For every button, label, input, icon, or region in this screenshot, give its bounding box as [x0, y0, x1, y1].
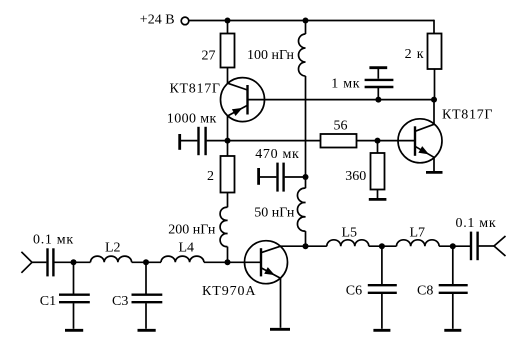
wire top rail right corner down to R 2k — [433, 20, 435, 34]
resistor 2k — [405, 34, 442, 100]
svg-text:2: 2 — [207, 169, 214, 184]
capacitor C6 — [346, 246, 397, 329]
svg-text:50 нГн: 50 нГн — [254, 205, 295, 220]
svg-text:1 мк: 1 мк — [331, 77, 360, 92]
node to C6 — [379, 243, 385, 249]
capacitor 1 uF with ground above — [331, 68, 393, 100]
node base rail to 2k / V2 collector — [431, 97, 437, 103]
wire middle column — [305, 76, 307, 188]
svg-text:0.1 мк: 0.1 мк — [33, 233, 74, 248]
transistor V1 KT817G — [170, 68, 265, 157]
input connector — [21, 252, 32, 273]
node collector bus — [303, 243, 309, 249]
svg-text:470 мк: 470 мк — [255, 147, 299, 162]
capacitor 470 uF with ground left — [255, 147, 305, 192]
resistor 56 — [321, 119, 416, 148]
resistor 2 — [207, 156, 235, 207]
capacitor C8 — [417, 246, 468, 329]
inductor L4 — [161, 240, 261, 262]
svg-text:100 нГн: 100 нГн — [247, 48, 295, 63]
capacitor 0.1 uF output — [456, 216, 497, 260]
ground under C6 — [373, 329, 390, 332]
capacitor C3 — [112, 262, 162, 329]
node to C3 — [143, 259, 149, 265]
node top rail to L(100nH) — [303, 18, 309, 24]
svg-text:+24 В: +24 В — [140, 13, 175, 28]
node 1000uF wire to R2 / V1 emitter — [225, 138, 231, 144]
svg-text:C1: C1 — [40, 294, 56, 309]
wire V1 base rail — [248, 99, 435, 101]
inductor 50 nH — [254, 188, 305, 246]
svg-text:КТ817Г: КТ817Г — [442, 107, 493, 122]
capacitor 1000 uF with ground left — [167, 112, 321, 156]
node top rail to R27 — [225, 18, 231, 24]
inductor L2 — [91, 240, 162, 262]
node 56 to 360 / V2 base — [375, 138, 381, 144]
resistor 27 — [202, 21, 235, 68]
ground under 360 — [369, 198, 387, 201]
wire top rail — [189, 20, 434, 22]
output connector — [494, 236, 506, 256]
power terminal +24 V — [140, 13, 189, 28]
svg-text:КТ817Г: КТ817Г — [170, 82, 221, 97]
svg-text:C8: C8 — [417, 284, 433, 299]
svg-text:200 нГн: 200 нГн — [168, 222, 216, 237]
resistor 360 — [345, 141, 384, 198]
node to V3 base / 200nH — [225, 259, 231, 265]
svg-text:КТ970А: КТ970А — [202, 284, 256, 299]
ground under C1 — [65, 329, 83, 332]
svg-text:L5: L5 — [342, 225, 358, 240]
svg-text:360: 360 — [345, 169, 366, 184]
capacitor C1 — [40, 262, 90, 329]
capacitor 0.1 uF input — [32, 233, 91, 277]
ground under V2 emitter — [426, 171, 443, 174]
node base rail to 1uF — [375, 97, 381, 103]
svg-text:C3: C3 — [112, 294, 128, 309]
inductor 100 nH — [247, 21, 306, 77]
transistor V3 KT970A — [202, 241, 288, 328]
svg-text:L7: L7 — [410, 226, 426, 241]
svg-text:1000 мк: 1000 мк — [167, 112, 217, 127]
ground under C3 — [138, 329, 156, 332]
svg-text:27: 27 — [202, 48, 216, 63]
svg-text:2 к: 2 к — [405, 47, 425, 62]
svg-text:C6: C6 — [346, 284, 362, 299]
ground under C8 — [444, 329, 461, 332]
transistor V2 KT817G — [398, 100, 493, 171]
svg-text:56: 56 — [334, 119, 348, 134]
svg-text:L2: L2 — [105, 240, 121, 255]
node middle column to 470uF — [303, 174, 309, 180]
node input to C1 — [71, 259, 77, 265]
wire V3 collector to node — [281, 245, 327, 247]
ground under V3 emitter — [270, 328, 290, 331]
svg-text:0.1 мк: 0.1 мк — [456, 216, 497, 231]
inductor 200 nH — [168, 207, 227, 262]
inductor L7 — [397, 226, 471, 247]
node to C8 — [450, 243, 456, 249]
svg-text:L4: L4 — [179, 240, 195, 255]
inductor L5 — [327, 225, 397, 246]
